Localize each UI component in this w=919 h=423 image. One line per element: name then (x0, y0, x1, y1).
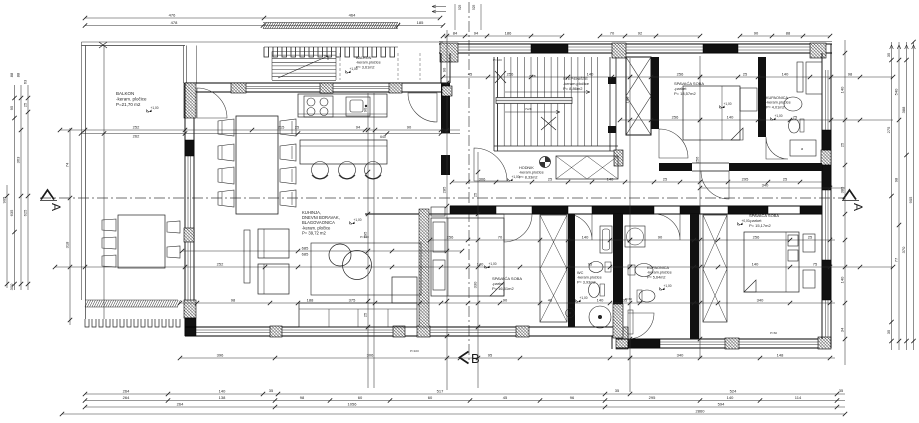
svg-text:525: 525 (458, 4, 462, 10)
door arc corridor to bedroom2 (659, 129, 688, 158)
svg-text:25: 25 (23, 102, 28, 107)
svg-text:25: 25 (363, 312, 368, 317)
dimension chain above upper wall c (740, 35, 830, 37)
svg-text:300: 300 (9, 283, 14, 290)
bathroom1 toilet (789, 119, 800, 133)
living room rug (311, 243, 421, 295)
nightstand bedroom3 b (803, 270, 815, 288)
svg-text:B: B (471, 351, 480, 366)
svg-text:140: 140 (597, 298, 604, 303)
svg-text:1056: 1056 (348, 402, 358, 407)
wall pillar hatched left mid (184, 228, 194, 242)
wall stair room right x610 (609, 57, 611, 151)
svg-text:594: 594 (718, 402, 725, 407)
bathroom1 sink (784, 97, 802, 111)
wall bottom right block base lines (616, 338, 831, 340)
wall pillar hatched bottom right corner (818, 337, 831, 349)
svg-text:185: 185 (417, 20, 424, 25)
svg-text:625: 625 (23, 209, 28, 216)
svg-text:+1,00: +1,00 (580, 296, 588, 300)
svg-text:a: a (801, 147, 803, 151)
svg-text:330: 330 (473, 281, 478, 288)
window right wall 2 (825, 190, 827, 260)
wall pillar hatched top A (440, 43, 458, 62)
svg-text:188: 188 (307, 298, 314, 303)
dimension chain top 1 (85, 17, 440, 19)
svg-text:95: 95 (9, 105, 14, 110)
svg-text:98: 98 (231, 298, 236, 303)
armchair 2 (258, 264, 289, 294)
level mark terrace (346, 67, 358, 73)
dim chain y267 full (55, 266, 893, 268)
svg-text:370: 370 (901, 246, 906, 253)
door arc corridor to wc (566, 214, 592, 240)
svg-text:98: 98 (300, 395, 305, 400)
wall jog at entrance (612, 327, 628, 349)
wall segment top upper 2 (703, 44, 738, 53)
staircase handrail (496, 98, 572, 104)
upper terrace eave lines (185, 41, 443, 43)
svg-text:140: 140 (477, 262, 484, 267)
window bedroom3 bottom (660, 341, 725, 343)
door arc corridor to bedroom1 (504, 214, 532, 242)
terrace stair treads (272, 51, 336, 53)
svg-text:98: 98 (894, 177, 899, 182)
svg-text:P=100: P=100 (493, 58, 502, 62)
svg-text:256: 256 (507, 72, 514, 77)
svg-text:138: 138 (219, 395, 226, 400)
svg-text:640: 640 (380, 135, 386, 139)
grid line x630 (629, 58, 631, 392)
wc sink (589, 262, 603, 273)
svg-text:75: 75 (813, 262, 818, 267)
coffee tables round (329, 244, 351, 266)
wall segment top upper 1 (531, 44, 568, 53)
wall segment corridor d (680, 206, 700, 214)
grid line x845 (844, 40, 846, 365)
wall segment corridor f (800, 206, 822, 214)
dim chain y251 living (182, 250, 462, 252)
dimension chain left 4 (27, 85, 29, 290)
svg-text:264: 264 (123, 389, 130, 394)
door arc corridor closet (701, 171, 729, 199)
svg-text:94: 94 (356, 125, 361, 130)
svg-text:35: 35 (886, 329, 891, 334)
svg-text:25: 25 (473, 192, 478, 197)
svg-text:35: 35 (269, 388, 274, 393)
svg-text:+1,00: +1,00 (512, 175, 520, 179)
svg-text:186: 186 (505, 31, 512, 36)
wall top upper block base lines (439, 43, 832, 45)
level mark bedroom2 (720, 102, 732, 108)
bathroom2 radiator (628, 310, 633, 334)
svg-text:140: 140 (752, 262, 759, 267)
svg-text:256: 256 (672, 115, 679, 120)
svg-text:60: 60 (428, 395, 433, 400)
door arc balcony to living room (197, 88, 227, 118)
svg-text:478: 478 (171, 20, 178, 25)
sofa chaise (392, 277, 417, 303)
window right wall 1 (825, 70, 827, 130)
wall below stairs y146 (494, 145, 618, 147)
svg-text:+0,00: +0,00 (742, 219, 750, 223)
svg-text:388: 388 (901, 106, 906, 113)
bar stools (312, 162, 329, 179)
svg-text:525: 525 (472, 4, 476, 10)
window right wall 3 (825, 300, 827, 337)
dimension chain left 1 (6, 185, 8, 288)
railing hatch strip top (263, 23, 400, 29)
wall pillar hatched bottom 2 (393, 326, 405, 337)
svg-text:88: 88 (786, 31, 791, 36)
wall bedroom2 bathroom x758 (758, 57, 766, 137)
svg-text:295: 295 (649, 395, 656, 400)
wall pillar hatched bottom right 1 (725, 338, 739, 349)
svg-text:25: 25 (548, 177, 553, 182)
level mark balcony (147, 106, 159, 112)
wall segment corridor c (592, 206, 654, 214)
svg-text:35: 35 (615, 388, 620, 393)
svg-text:685: 685 (302, 252, 309, 257)
svg-text:375: 375 (349, 298, 356, 303)
dim chain y188 bedroom3 (700, 187, 845, 189)
bed bedroom2 (683, 86, 740, 140)
grid line x447 (446, 30, 448, 390)
wall bottom left block base lines (185, 326, 617, 328)
svg-text:A: A (49, 203, 63, 211)
terrace dashed projection lines (339, 53, 341, 80)
svg-text:96: 96 (570, 395, 575, 400)
svg-text:140: 140 (840, 86, 845, 93)
svg-text:35: 35 (839, 388, 844, 393)
svg-text:P=60: P=60 (625, 297, 632, 301)
level mark bathroom1 (771, 114, 783, 120)
wall stair room left x494 (493, 57, 495, 151)
balcony outdoor chairs (102, 219, 116, 231)
sliding window living room bottom (196, 329, 270, 331)
staircase arrows and break marks (505, 91, 590, 94)
svg-text:306: 306 (479, 177, 486, 182)
dim chain y120 upper block (620, 119, 893, 121)
wall segment right solid c (822, 260, 831, 300)
grid line x478 (477, 152, 479, 388)
svg-text:275: 275 (886, 126, 891, 133)
svg-text:524: 524 (730, 389, 737, 394)
svg-text:148: 148 (777, 353, 784, 358)
bathroom1 shower (806, 62, 822, 94)
kitchen sink (346, 97, 370, 116)
nightstand bedroom3 a (803, 234, 815, 252)
wall left exterior base lines (184, 83, 186, 336)
svg-text:92: 92 (638, 31, 643, 36)
svg-text:264: 264 (123, 395, 130, 400)
kitchen island (300, 140, 387, 164)
svg-text:+1,00: +1,00 (354, 218, 362, 222)
svg-text:264: 264 (177, 402, 184, 407)
wall right exterior base lines (821, 53, 823, 339)
corridor bottom wall y206 (450, 205, 822, 207)
svg-text:+1,00: +1,00 (489, 262, 497, 266)
section marker A right (842, 190, 865, 211)
svg-text:635: 635 (9, 209, 14, 216)
arrow marks top left of upper block (432, 5, 446, 13)
svg-text:2860: 2860 (696, 409, 706, 414)
wall segment corridor a (450, 206, 496, 214)
svg-text:7x28: 7x28 (529, 74, 536, 78)
balcony outdoor table (118, 215, 165, 268)
svg-text:88: 88 (9, 72, 14, 77)
svg-text:285: 285 (442, 186, 447, 193)
svg-text:340: 340 (757, 298, 764, 303)
wc toilet (589, 283, 600, 298)
armchair 1 (258, 229, 289, 258)
wall pillar hatched kitchen top 1 (231, 83, 246, 93)
grid line x368 (367, 93, 369, 388)
bathroom1 radiator (797, 62, 803, 92)
dim chain y358 below building (180, 357, 835, 359)
window left wall 2 (187, 242, 189, 300)
wall pillar hatched bottom 1 (270, 326, 282, 337)
wall segment right solid a (822, 130, 831, 150)
wardrobe bedroom1 with X (540, 215, 567, 322)
balcony railing comb bottom (85, 319, 180, 327)
svg-text:215: 215 (278, 125, 285, 130)
dim chain y240 rooms (430, 239, 835, 241)
wc vanity (600, 226, 612, 253)
wall pillar hatched jog (616, 327, 628, 349)
dimension chain bottom 4 (62, 413, 845, 415)
svg-text:140: 140 (219, 389, 226, 394)
svg-text:94: 94 (474, 31, 479, 36)
svg-text:74: 74 (65, 162, 70, 167)
level mark corridor (508, 175, 520, 181)
svg-text:140: 140 (727, 395, 734, 400)
door arc corridor to bathroom2 (654, 214, 680, 240)
nightstand bedroom1 a (431, 207, 445, 216)
bathroom1 cabinet (790, 140, 816, 156)
door arc bedroom2 to bathroom (766, 137, 788, 159)
wardrobe bedroom3 with X (703, 215, 727, 322)
section marker A left (40, 190, 63, 211)
wall pillar hatched kitchen top 2 (320, 83, 333, 93)
svg-text:45: 45 (503, 395, 508, 400)
bed bedroom3 (744, 232, 799, 292)
wall pillar hatched wc bottom (613, 304, 623, 338)
wall pillar hatched top-right corner (810, 43, 826, 58)
svg-text:256: 256 (753, 235, 760, 240)
svg-text:396: 396 (217, 353, 224, 358)
wall top of kitchen block base lines (185, 82, 450, 84)
terrace boundary above left wall (183, 46, 185, 84)
dimension chain top 2 (85, 25, 443, 27)
wall pillar hatched top B (612, 43, 626, 58)
dimension chain right 1 (891, 42, 893, 350)
svg-text:90: 90 (407, 125, 412, 130)
dimension chain left 2 (14, 85, 16, 290)
svg-text:70: 70 (498, 235, 503, 240)
svg-text:905: 905 (908, 196, 913, 203)
eave line upper block (439, 41, 832, 43)
svg-text:252: 252 (217, 262, 224, 267)
wall wc left x568 (568, 214, 575, 327)
dining chairs left (218, 119, 234, 136)
svg-text:+1,00: +1,00 (775, 114, 783, 118)
elevator shaft with cross bracing (626, 57, 651, 135)
dim chain y130 kitchen (60, 129, 460, 131)
wall segment left bottom corner (185, 318, 196, 336)
level mark bedroom1 (485, 262, 497, 268)
window kitchen top (246, 86, 320, 88)
svg-text:+1,00: +1,00 (724, 102, 732, 106)
section marker B bottom (460, 351, 480, 366)
wall wc right x613 (613, 214, 623, 304)
svg-text:540: 540 (894, 88, 899, 95)
dimension chain above upper wall a (443, 35, 562, 37)
dimension chain bottom 2 (85, 400, 845, 402)
wall segment corridor b (532, 206, 568, 214)
wall segment left 1 (185, 140, 194, 156)
svg-text:35: 35 (886, 52, 891, 57)
svg-text:84: 84 (453, 31, 458, 36)
window stair top (458, 46, 531, 48)
window left wall 1 (187, 155, 189, 228)
wall kitchen right x441 (441, 83, 450, 133)
bed bedroom1 (431, 218, 504, 296)
dim chain y303 full (180, 302, 835, 304)
svg-text:295: 295 (742, 177, 749, 182)
svg-text:25: 25 (743, 72, 748, 77)
door arc terrace to kitchen (408, 93, 437, 122)
grid line x374 (373, 93, 375, 388)
wall pillar hatched bottom 4 (516, 326, 529, 337)
svg-text:256: 256 (695, 156, 700, 163)
svg-text:340: 340 (762, 183, 769, 188)
wall pillar hatched top-left corner (184, 83, 196, 118)
dimension chain balcony vertical (69, 128, 71, 325)
svg-text:95: 95 (488, 353, 493, 358)
wall pillar hatched corridor stair corner (614, 150, 623, 166)
window bathroom top (738, 46, 810, 48)
svg-text:P=100: P=100 (410, 349, 419, 353)
dining table (236, 116, 278, 214)
svg-text:63: 63 (23, 79, 28, 84)
dimension chain right 3 (906, 42, 908, 350)
svg-text:77: 77 (894, 257, 899, 262)
wall pillar hatched bottom 3 (417, 326, 430, 337)
sofa (299, 303, 417, 327)
svg-text:363: 363 (16, 156, 21, 163)
wall segment corridor e (728, 206, 768, 214)
svg-text:P=60: P=60 (770, 331, 777, 335)
wall pillar hatched kitchen top junction (442, 86, 452, 96)
svg-text:70: 70 (610, 31, 615, 36)
dimension chain bottom 3 (85, 406, 845, 408)
svg-text:25: 25 (295, 125, 300, 130)
kitchen counter (298, 94, 387, 117)
bathroom2 shower (625, 226, 645, 247)
window bedroom2 top (568, 46, 612, 48)
svg-text:25: 25 (783, 177, 788, 182)
wall segment right solid b (822, 165, 831, 190)
svg-text:90: 90 (754, 31, 759, 36)
svg-text:385: 385 (840, 186, 845, 193)
svg-text:140: 140 (625, 96, 630, 103)
svg-text:262: 262 (133, 134, 140, 139)
svg-text:25: 25 (808, 235, 813, 240)
svg-text:140: 140 (782, 72, 789, 77)
svg-text:140: 140 (727, 115, 734, 120)
svg-text:140: 140 (582, 235, 589, 240)
svg-text:318: 318 (65, 241, 70, 248)
svg-text:252: 252 (133, 125, 140, 130)
level mark bedroom3 (738, 219, 750, 225)
wall bathroom2 bedroom3 x690 (690, 214, 699, 339)
dimension chain left 3 (20, 85, 22, 290)
dimension chain bottom 1 (85, 393, 845, 395)
wall pillar hatched left bottom (184, 300, 196, 318)
svg-text:90: 90 (503, 298, 508, 303)
svg-text:34: 34 (840, 327, 845, 332)
wall bedroom2 left x651 (651, 57, 659, 129)
svg-text:A: A (851, 203, 865, 211)
svg-text:60: 60 (358, 395, 363, 400)
svg-text:90: 90 (442, 67, 447, 72)
level mark bathroom2 (660, 284, 672, 290)
svg-text:464: 464 (349, 13, 356, 18)
dimension chain right 4 (913, 42, 915, 350)
svg-text:340: 340 (677, 353, 684, 358)
wall pillar hatched right mid (821, 150, 831, 165)
svg-text:306: 306 (367, 353, 374, 358)
north arrow circle icon (540, 157, 551, 168)
dim chain y133 kitchen second (81, 133, 460, 135)
level mark wc (576, 296, 588, 302)
section line A-A (40, 197, 845, 199)
svg-text:90: 90 (658, 235, 663, 240)
svg-text:140: 140 (840, 276, 845, 283)
svg-text:45: 45 (468, 72, 473, 77)
svg-text:114: 114 (795, 395, 802, 400)
svg-text:25: 25 (840, 142, 845, 147)
staircase treads (498, 57, 598, 146)
wc washing machine (589, 306, 611, 328)
svg-text:517: 517 (437, 389, 444, 394)
dimension chain right 2 (898, 42, 900, 350)
window bedroom1 bottom (430, 329, 516, 331)
svg-text:685: 685 (302, 246, 309, 251)
upper balcony railing comb (264, 47, 395, 57)
balcony left outline (81, 42, 83, 300)
section line B-B vertical (468, 2, 470, 360)
balcony railing hatch strip bottom (85, 300, 181, 307)
corridor closet with X (556, 156, 618, 179)
dining chairs right (280, 119, 296, 136)
dim chain y182 corridor (452, 181, 822, 183)
wall bedroom1 left x419 (419, 209, 429, 327)
svg-text:P=100: P=100 (360, 235, 369, 239)
dim chain y77 upper block (443, 76, 893, 78)
grid line x700 (699, 56, 701, 358)
kitchen stove burners (304, 96, 333, 117)
wall segment bottom right solid (628, 339, 660, 348)
svg-text:256: 256 (677, 72, 684, 77)
dimension chain above upper wall b (600, 35, 700, 37)
svg-text:+1,00: +1,00 (151, 106, 159, 110)
corridor top wall right part y163 (659, 163, 692, 171)
door arc hall to corridor (474, 148, 507, 181)
svg-text:25: 25 (663, 177, 668, 182)
svg-text:+1,00: +1,00 (350, 67, 358, 71)
